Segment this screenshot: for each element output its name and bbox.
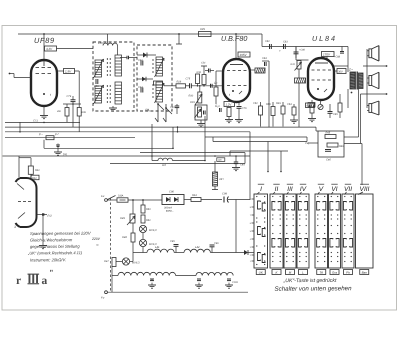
- wire UL84 anode to transformer: [334, 65, 348, 67]
- resistor R44 cathode: [311, 100, 313, 103]
- switch function label Ban: [360, 270, 369, 275]
- wire Dr leads: [214, 161, 216, 172]
- speaker LS3: [369, 104, 372, 113]
- capacitor C88 electrolytic: [341, 47, 343, 52]
- UF89 internal electrodes: [43, 60, 45, 66]
- wire y163.5: [110, 163, 245, 165]
- mains plug upper pin: [105, 199, 108, 202]
- fuse 0,8A: [107, 199, 117, 201]
- wire grid UL84 drop: [295, 47, 297, 59]
- wire UF89 cathode: [43, 106, 45, 115]
- voltage label box 195V: [238, 52, 250, 57]
- svg-text:Schalter von unten gesehen: Schalter von unten gesehen: [274, 285, 352, 293]
- IF transformer can 2 (dashed): [137, 45, 172, 111]
- capacitor C96: [210, 252, 212, 254]
- svg-text:C90: C90: [169, 189, 174, 193]
- svg-text:30V: 30V: [338, 69, 343, 73]
- wire bus x316 drop: [315, 127, 317, 131]
- switch column VI: [329, 194, 341, 268]
- svg-text:I: I: [260, 186, 262, 193]
- speaker LS2: [369, 76, 372, 86]
- potentiometer R41: [297, 61, 301, 70]
- svg-text:Fu: Fu: [101, 194, 105, 198]
- svg-text:R33: R33: [196, 71, 201, 74]
- wire anode UF89 to bus: [43, 34, 45, 60]
- wire magic eye right: [37, 214, 48, 216]
- svg-text:C76: C76: [242, 107, 247, 110]
- ground below feedthrough: [57, 148, 59, 151]
- svg-text:IV: IV: [300, 186, 307, 193]
- coil L30 bumps: [158, 158, 172, 160]
- transformer bottom dot: [351, 92, 353, 94]
- ground network: [200, 120, 202, 123]
- svg-text:C99: C99: [222, 191, 227, 195]
- svg-text:0,8A: 0,8A: [118, 193, 124, 197]
- voltage label box 4,2V: [45, 46, 57, 51]
- svg-text:R49: R49: [120, 216, 125, 220]
- svg-text:R61: R61: [35, 169, 40, 172]
- IF1 core dashes upper: [106, 58, 108, 60]
- svg-text:R48: R48: [122, 235, 127, 239]
- svg-text:C75: C75: [185, 77, 190, 80]
- svg-text:ʖ: ʖ: [14, 225, 16, 229]
- mains lower pin: [105, 291, 108, 294]
- capacitor C49a: [176, 104, 178, 106]
- capacitor C83 electrolytic: [283, 44, 285, 49]
- capacitor C54: [293, 104, 295, 107]
- resistor R26: [66, 104, 68, 108]
- wire UBF80 anode to bus: [235, 34, 237, 59]
- feedthrough bar at screen drop: [176, 43, 182, 45]
- wire bus y127.1: [5, 126, 316, 128]
- label box R62: [31, 175, 39, 180]
- resistor R28 horizontal: [176, 84, 186, 88]
- voltage label box 12V below UBF80: [224, 102, 235, 107]
- diode C97 marks: [244, 250, 248, 255]
- svg-text:U.B.F80: U.B.F80: [221, 34, 247, 43]
- capacitor C45: [329, 104, 331, 111]
- junction dot fuse: [132, 199, 134, 201]
- svg-text:”: ”: [49, 268, 53, 277]
- voltage label box 170V: [322, 52, 335, 57]
- svg-text:Fu: Fu: [101, 295, 105, 299]
- svg-text:C50: C50: [170, 106, 175, 109]
- trimmer arrow lower: [94, 85, 104, 104]
- svg-text:C103: C103: [232, 281, 238, 284]
- switch function label M: [286, 270, 295, 275]
- svg-text:C54: C54: [201, 61, 206, 64]
- diode D2: [137, 78, 153, 80]
- svg-text:R29: R29: [200, 27, 205, 31]
- wire cathode cluster y104: [63, 103, 81, 105]
- capacitor C47 in box: [325, 149, 331, 151]
- svg-text:C96: C96: [214, 242, 219, 245]
- capacitor C74 in line: [210, 84, 212, 88]
- switch column V: [315, 194, 328, 268]
- svg-text:R28: R28: [176, 80, 181, 83]
- svg-text:R50: R50: [146, 208, 151, 211]
- resistor R45 in box: [325, 135, 336, 139]
- rectifier C90 box: [162, 195, 184, 205]
- svg-text:Ü₂≈: Ü₂≈: [215, 104, 220, 108]
- diode D1: [137, 54, 156, 56]
- svg-text:β→: β→: [38, 132, 44, 136]
- svg-text:MV6,3: MV6,3: [149, 228, 157, 232]
- wire AVC y137.7 with parts: [5, 137, 135, 139]
- resistor R32: [196, 74, 200, 84]
- dial lamp 3: [122, 258, 129, 265]
- UL84 internal electrodes: [315, 62, 328, 64]
- resistor R51: [141, 215, 145, 223]
- wire y156 long: [3, 155, 251, 157]
- wire x205 vertical upper: [204, 116, 206, 127]
- IF transformer can 1 (dashed): [93, 42, 134, 111]
- potentiometer R30 volume: [199, 86, 201, 92]
- resistor R34 grid: [214, 87, 218, 96]
- resistor R71 on AVC: [46, 136, 54, 140]
- IF2 lower coil: [156, 82, 163, 102]
- svg-text:C62: C62: [138, 59, 143, 62]
- svg-text:≃: ≃: [96, 243, 99, 247]
- wire B+ top line to transformer: [296, 46, 348, 48]
- pot circle below UL84: [318, 104, 323, 109]
- svg-text:L42: L42: [195, 245, 200, 249]
- capacitor C49b below y156: [235, 156, 237, 162]
- ground UF89 cathode: [40, 115, 48, 117]
- wire y157.7 to eye: [18, 156, 20, 177]
- dial lamp 2: [139, 239, 146, 246]
- svg-text:Z ≈: Z ≈: [348, 67, 353, 71]
- wire bus y122.4: [5, 121, 80, 123]
- coil L40 top bumps: [103, 43, 117, 45]
- dial lamp 1: [139, 225, 146, 232]
- svg-text:Gra: Gra: [332, 271, 337, 275]
- resistor R40 vertical: [339, 94, 341, 103]
- svg-text:C83: C83: [283, 40, 288, 43]
- wire UBF80 grid left: [216, 70, 223, 72]
- wire UBF80 anode right: [250, 69, 255, 71]
- wire x236 drop to heater: [235, 200, 237, 253]
- resistor 2k in can2: [154, 81, 163, 85]
- resistor R33 grid: [202, 75, 206, 85]
- wire output terminal 2: [361, 93, 387, 95]
- voltage label box 1,9V: [57, 70, 64, 72]
- switch function label K: [272, 270, 281, 275]
- capacitor C52 vertical: [260, 102, 262, 106]
- wire x362 drop to bank: [361, 144, 363, 186]
- capacitor C54 small: [205, 70, 209, 72]
- heater cap C103: [227, 278, 231, 280]
- svg-text:R31: R31: [190, 100, 195, 104]
- trimmer arrow IF2 lower: [155, 83, 165, 103]
- wire UBF80 to UL84 top: [261, 34, 263, 47]
- wire feedback to transformer: [344, 136, 359, 138]
- resistor R39: [282, 102, 284, 106]
- wire main bus y131.8: [5, 131, 250, 133]
- wire UL84 anode top: [326, 57, 328, 60]
- svg-text:C45: C45: [333, 113, 338, 116]
- value label box on y156: [217, 158, 225, 162]
- svg-text:Ban: Ban: [362, 271, 368, 275]
- svg-text:a: a: [41, 275, 47, 287]
- wire y152.6: [140, 152, 245, 154]
- svg-text:R51: R51: [146, 219, 151, 222]
- wire detector line to UBF80 grid: [164, 85, 176, 87]
- svg-text:Dr≈: Dr≈: [219, 177, 224, 181]
- switch column II: [270, 194, 283, 268]
- svg-text:R26: R26: [81, 111, 86, 114]
- tube UF89 envelope: [31, 60, 57, 106]
- wire x173 vertical: [172, 127, 174, 148]
- UBF80 internal electrodes: [230, 64, 243, 66]
- heater chain bumps: [112, 275, 118, 277]
- wire right column x269 drop: [268, 106, 270, 127]
- svg-text:C49: C49: [240, 163, 245, 166]
- capacitor C82: [269, 44, 271, 49]
- svg-text:Ph: Ph: [346, 271, 350, 275]
- svg-text:R30: R30: [188, 94, 193, 97]
- resistor R43 label box: [306, 103, 315, 108]
- tube UL84 envelope: [308, 58, 334, 100]
- trimmer arrow upper: [94, 59, 104, 78]
- trimmer arrow IF2 upper: [155, 58, 165, 77]
- heater cap C102: [198, 278, 200, 280]
- speaker LS1: [369, 49, 372, 58]
- svg-text:gegen Chassis bei Stellung: gegen Chassis bei Stellung: [30, 244, 80, 249]
- svg-text:Gleich-u.Wechselstrom: Gleich-u.Wechselstrom: [30, 237, 73, 242]
- svg-text:C79: C79: [66, 95, 71, 98]
- resistor R64: [184, 199, 191, 201]
- switch column I: [254, 194, 268, 268]
- switch column VII: [342, 194, 354, 268]
- svg-text:UF89: UF89: [34, 36, 55, 45]
- svg-text:E250...: E250...: [166, 210, 174, 213]
- wire top B+ bus: [18, 33, 262, 35]
- switch column VIII: [356, 194, 374, 268]
- choke Dr hatched: [213, 172, 218, 186]
- switch function label TA: [317, 270, 326, 275]
- svg-text:„UK“-Taste ist gedrückt: „UK“-Taste ist gedrückt: [283, 278, 337, 284]
- voltage box right of UL84: [334, 70, 337, 72]
- wire R47 row to bottom: [111, 267, 113, 293]
- AF coupling network box R31: [195, 105, 207, 120]
- svg-text:195V: 195V: [239, 53, 247, 57]
- wire feedback left: [308, 142, 318, 144]
- switch column IV: [297, 194, 309, 268]
- ground R38: [225, 119, 233, 121]
- wire left antenna input jog: [14, 77, 31, 79]
- diode demod + C84: [262, 60, 269, 62]
- heater cap C101: [151, 279, 153, 281]
- svg-text:L41: L41: [155, 245, 160, 249]
- mains dashed separation line: [110, 198, 112, 292]
- capacitor C58: [95, 79, 97, 84]
- svg-text:(½): (½): [47, 213, 51, 217]
- IF2 core dashes lower: [152, 84, 154, 86]
- IF1 core dashes lower: [106, 85, 108, 87]
- wire AF band y137: [205, 136, 307, 138]
- capacitor C64: [140, 88, 142, 93]
- svg-text:R58: R58: [266, 103, 271, 106]
- wire screen feed drop: [178, 34, 180, 44]
- wire magic eye ground drop: [42, 215, 44, 245]
- wire L40 to bus: [107, 34, 109, 44]
- svg-text:C52: C52: [253, 102, 258, 105]
- wire speaker bus: [366, 49, 368, 108]
- svg-text:Instrument: 20kΩ/V.: Instrument: 20kΩ/V.: [30, 257, 67, 262]
- capacitor C18 below AVC: [43, 140, 45, 149]
- IF1 lower right coil: [115, 82, 122, 104]
- wire vertical x281 connector: [280, 151, 282, 171]
- svg-text:C84: C84: [262, 57, 267, 60]
- switch column III: [284, 194, 296, 268]
- resistor R37 hatched box: [255, 68, 265, 73]
- svg-text:C54: C54: [287, 103, 292, 106]
- capacitor C75: [189, 83, 191, 88]
- svg-text:R45: R45: [325, 131, 330, 134]
- lamp chain wiring: [132, 200, 134, 214]
- svg-text:C46: C46: [326, 157, 331, 161]
- IF1 primary coil upper left: [95, 60, 102, 77]
- svg-text:+: +: [279, 49, 281, 53]
- output transformer core: [355, 72, 357, 90]
- wire y148.3: [44, 147, 173, 149]
- junction dots buses: [19, 131, 21, 133]
- svg-text:C71: C71: [33, 118, 38, 122]
- svg-text:VI: VI: [331, 186, 337, 193]
- wire transformer secondary drops: [358, 89, 360, 138]
- capacitor C95: [175, 246, 177, 253]
- svg-text:R64: R64: [192, 194, 197, 197]
- svg-text:„UK“ (unverk.Rechtsdreh.4.11): „UK“ (unverk.Rechtsdreh.4.11): [27, 250, 83, 255]
- tube UM80 magic eye envelope: [20, 178, 37, 227]
- capacitor C70: [219, 108, 221, 112]
- resistor R48: [131, 233, 135, 242]
- switch function label UK: [256, 270, 265, 275]
- svg-text:II: II: [275, 186, 279, 193]
- resistor R46 in box: [327, 143, 338, 147]
- svg-text:4,2V: 4,2V: [46, 47, 53, 51]
- svg-text:170V: 170V: [323, 52, 331, 56]
- resistor R38 cathode: [227, 108, 231, 117]
- svg-text:TA: TA: [319, 271, 323, 275]
- wire can1 to can2 coupling: [120, 57, 127, 59]
- label box R42: [295, 78, 306, 83]
- wire output terminal 1: [363, 65, 386, 67]
- svg-text:R41: R41: [290, 63, 295, 66]
- svg-text:VIII: VIII: [360, 186, 370, 193]
- svg-text:Spannungen gemessen bei 220V: Spannungen gemessen bei 220V: [30, 231, 92, 236]
- switch function label Gra: [330, 270, 339, 275]
- resistor R47: [112, 258, 116, 267]
- wire to magic eye: [30, 174, 32, 178]
- wire oscillator y160: [152, 160, 158, 162]
- resistor R27: [75, 70, 80, 72]
- svg-text:+C86: +C86: [299, 48, 305, 51]
- capacitor C99 electrolytic in line: [223, 197, 225, 203]
- svg-text:R47: R47: [104, 259, 109, 263]
- svg-text:C95: C95: [170, 240, 175, 243]
- IF2 upper coil: [156, 57, 163, 76]
- feedthrough cap: [57, 144, 59, 149]
- wire x152 vertical: [151, 124, 153, 161]
- wire AF band y141.5: [213, 141, 307, 143]
- wire after L42: [212, 252, 247, 254]
- resistor R29 on top bus: [199, 32, 212, 37]
- wire UL84 grid left: [296, 59, 309, 61]
- wire bottom mains line: [107, 291, 248, 293]
- IF1 lower left coil: [95, 86, 102, 103]
- mains switch blade: [108, 196, 116, 200]
- IF1 secondary coil upper right: [115, 55, 122, 76]
- feedback network box: [318, 131, 344, 157]
- choke L42 bumps: [174, 252, 184, 254]
- resistor R50: [142, 200, 144, 205]
- wire grid drop x20: [19, 122, 21, 131]
- switch function label Ph: [344, 270, 353, 275]
- tube UBF80 envelope: [223, 59, 250, 102]
- hatched resistor beside R43: [308, 103, 315, 108]
- svg-text:R39: R39: [276, 102, 281, 105]
- wire B+ from C99 right: [228, 199, 250, 201]
- potentiometer R49: [130, 214, 135, 223]
- ground IF1: [112, 106, 114, 108]
- svg-text:+C88: +C88: [334, 55, 341, 58]
- wire R42 down to bus: [298, 83, 300, 127]
- output transformer secondary: [359, 73, 364, 89]
- svg-text:220V: 220V: [91, 237, 101, 241]
- svg-text:VII: VII: [344, 186, 352, 193]
- magic eye internals: [17, 184, 24, 190]
- capacitor C79: [72, 96, 74, 100]
- output transformer primary hatched: [350, 72, 355, 89]
- svg-text:1,9V: 1,9V: [65, 69, 72, 73]
- IF2 core dashes upper: [152, 59, 154, 61]
- svg-text:R46: R46: [339, 145, 344, 148]
- wire band y151: [230, 150, 288, 152]
- wire vertical x268 connector: [267, 142, 269, 172]
- svg-text:(½): (½): [63, 152, 67, 156]
- wire bus right drop x250: [249, 132, 251, 200]
- capacitor C62: [140, 61, 142, 66]
- wire 4,2V box to can1: [57, 48, 94, 50]
- svg-text:r: r: [16, 275, 21, 287]
- capacitor C76 electrolytic: [238, 102, 240, 106]
- svg-text:V: V: [319, 186, 324, 193]
- wire x348 below transformer: [347, 89, 349, 108]
- switch function label L: [299, 270, 308, 275]
- resistor R58: [272, 102, 274, 107]
- choke L41 bumps: [133, 252, 147, 254]
- svg-text:ÜB₁: ÜB₁: [145, 108, 150, 112]
- svg-text:L40: L40: [98, 41, 103, 45]
- svg-text:C64: C64: [138, 86, 143, 89]
- resistor R61 box: [30, 158, 32, 166]
- wire x177.5 bus link: [177, 127, 179, 132]
- svg-text:U L 8 4: U L 8 4: [312, 34, 335, 43]
- capacitor C44 left: [295, 47, 297, 52]
- svg-text:C82: C82: [265, 40, 270, 43]
- wire x205 vertical lower: [204, 127, 206, 161]
